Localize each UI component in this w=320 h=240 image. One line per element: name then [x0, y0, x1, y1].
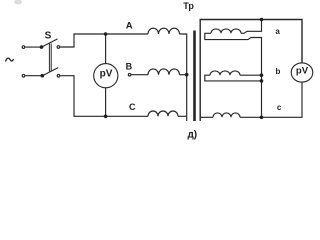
svg-text:b: b — [275, 67, 280, 76]
svg-text:a: a — [275, 27, 280, 36]
svg-text:д): д) — [187, 129, 197, 140]
svg-text:Тр: Тр — [183, 1, 194, 11]
svg-text:B: B — [126, 62, 133, 72]
svg-text:S: S — [45, 30, 52, 41]
svg-text:c: c — [277, 103, 282, 112]
svg-text:C: C — [129, 102, 136, 112]
svg-text:pV: pV — [100, 69, 113, 80]
svg-text:A: A — [126, 21, 133, 32]
svg-text:pV: pV — [296, 66, 309, 77]
